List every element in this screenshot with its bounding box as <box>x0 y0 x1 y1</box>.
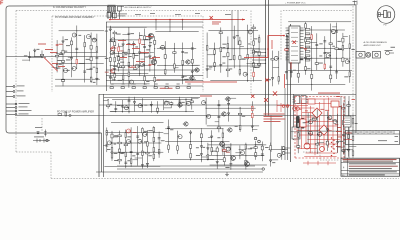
large cap element <box>118 6 124 19</box>
logo small part left <box>378 13 380 17</box>
logo inner glyph <box>378 11 390 18</box>
red text marks bottom amp <box>160 88 166 89</box>
svg-text:PD TONE LP POWER AMPLIFIER: PD TONE LP POWER AMPLIFIER <box>57 111 94 114</box>
IC internal hatch <box>291 28 298 60</box>
IC U301 with pin rows <box>289 26 300 63</box>
table header text <box>343 159 397 160</box>
red diagonal annotation left <box>44 58 58 72</box>
lower amp circuitry left <box>103 123 164 169</box>
left edge connector pins group1 <box>6 86 13 88</box>
speaker terminal circles <box>254 137 257 140</box>
red bottom band <box>303 162 336 164</box>
small parts on pin wire <box>58 112 71 117</box>
red note text lines center <box>264 114 285 115</box>
lower long wires <box>117 165 255 167</box>
red marks upper amp <box>118 40 126 41</box>
bus-side parts <box>267 51 280 87</box>
diode on border wire <box>37 130 47 137</box>
long horizontal wires upper block <box>106 21 203 23</box>
red power supply sub-circuit wires <box>277 98 342 157</box>
red X on bus lower <box>265 78 268 81</box>
parts left of table <box>344 130 346 158</box>
red marks right column <box>336 96 340 97</box>
black parts in red area <box>291 109 344 154</box>
amp lower rail <box>55 85 203 87</box>
red terminal dots column <box>331 137 332 138</box>
ground symbol <box>225 172 229 176</box>
input stage circuitry <box>53 26 104 87</box>
input wire <box>6 56 106 58</box>
red stub below IC <box>290 62 292 69</box>
vertical wire x271 <box>270 116 272 153</box>
lower mid circuitry <box>201 141 267 170</box>
svg-text:+ POWER AMP VCC: + POWER AMP VCC <box>285 1 306 4</box>
red transformer coils <box>304 143 310 149</box>
svg-text:IC 03A AMPLIFIER MAJORITY: IC 03A AMPLIFIER MAJORITY <box>53 6 86 9</box>
black cluster top of power block <box>292 96 306 140</box>
red label mid <box>200 96 212 97</box>
left edge connector pins group2 <box>6 103 15 105</box>
dashed boundary to table <box>303 151 320 153</box>
wire from pins to lower amp <box>17 115 99 117</box>
main amp upper circuitry left <box>105 26 155 88</box>
tiny mark <box>391 46 396 49</box>
red bridge rectifier diamonds <box>312 108 329 135</box>
logic symbol right <box>386 51 390 55</box>
test point cluster bottom-left <box>33 139 50 143</box>
right margin small boxes row <box>356 52 365 59</box>
lower amp right transistors <box>177 103 182 107</box>
svg-text:A-700 PERFORMANCE: A-700 PERFORMANCE <box>364 41 388 44</box>
svg-text:AMPLIFIER UNIT: AMPLIFIER UNIT <box>364 44 382 47</box>
red annotation signal trace <box>109 19 245 21</box>
center circuitry <box>202 98 260 133</box>
main amp upper circuitry right <box>149 31 200 86</box>
resistor ladder right of IC <box>306 29 310 62</box>
right column verticals <box>340 96 342 158</box>
vertical bus right triple <box>287 35 289 160</box>
red terminal circle <box>282 105 285 108</box>
red X mark on bus <box>264 98 268 102</box>
right column circuitry <box>338 101 358 158</box>
outer border frame <box>6 5 356 133</box>
mid strip circuitry <box>103 97 198 114</box>
lower mid sparse <box>265 143 288 167</box>
note box right <box>346 131 400 145</box>
output terminal <box>262 168 264 170</box>
red X mark 3 <box>251 95 254 98</box>
note box top cell text <box>347 131 392 134</box>
red path to vertical bus <box>244 36 284 58</box>
amp left vertical <box>106 22 108 91</box>
vertical bus pair center (to top edge) <box>265 0 267 116</box>
upper right block circuitry <box>285 22 355 91</box>
red relay boxes <box>300 119 306 127</box>
dashed drop left <box>41 118 43 131</box>
bottom parts row upper amp <box>110 87 190 89</box>
amplifier block dashed box <box>52 15 203 17</box>
red block label <box>318 93 340 94</box>
red vertical stub <box>284 74 286 88</box>
vertical bus lower-left <box>98 94 100 177</box>
power supply capacitor bank <box>107 6 108 19</box>
input filter parts <box>22 49 46 62</box>
revision table <box>341 158 400 176</box>
red X mark large <box>273 91 277 95</box>
cap bank labels <box>108 4 116 7</box>
stubs above border <box>354 1 356 6</box>
right side transistors upper amp <box>185 60 190 64</box>
dashed inner border <box>16 10 248 12</box>
mid divider wires <box>99 94 356 96</box>
red X mark 2 <box>293 41 296 44</box>
driver stage circuitry <box>206 24 262 82</box>
border step vertical <box>101 133 103 172</box>
red label left <box>38 44 46 45</box>
svg-text:+35V REGULATED SUPPLY: +35V REGULATED SUPPLY <box>124 6 153 9</box>
red dashed boundary box <box>295 96 344 98</box>
wire drops from red trace <box>155 20 157 31</box>
large transistors mid amp <box>148 33 153 38</box>
power transistors lower stage <box>220 142 225 147</box>
stub wires into center bus <box>252 48 266 50</box>
svg-text:PD POWER AMPLIFIER ASSEMBLY: PD POWER AMPLIFIER ASSEMBLY <box>55 16 95 19</box>
relay box right column <box>344 116 352 127</box>
small boxes below caps <box>107 13 117 18</box>
red X mark top <box>210 16 213 19</box>
manufacturer logo circle <box>377 6 395 24</box>
red stubs right column <box>344 132 352 134</box>
small labels above amp box <box>135 13 141 16</box>
lower amp circuitry right <box>164 120 230 163</box>
note box top cell ticks <box>352 131 394 135</box>
red wire center-left <box>185 81 237 83</box>
red transformer circle pair <box>293 107 297 111</box>
verticals from top dashed border <box>231 11 233 61</box>
label above border wire <box>35 126 42 129</box>
svg-text:PD: PD <box>384 25 387 27</box>
bus x285 <box>284 88 286 160</box>
red component smudges <box>320 108 324 111</box>
dark electrolytic caps in supply <box>296 116 304 129</box>
output terminal circles <box>282 147 285 150</box>
red label by X <box>212 22 221 23</box>
